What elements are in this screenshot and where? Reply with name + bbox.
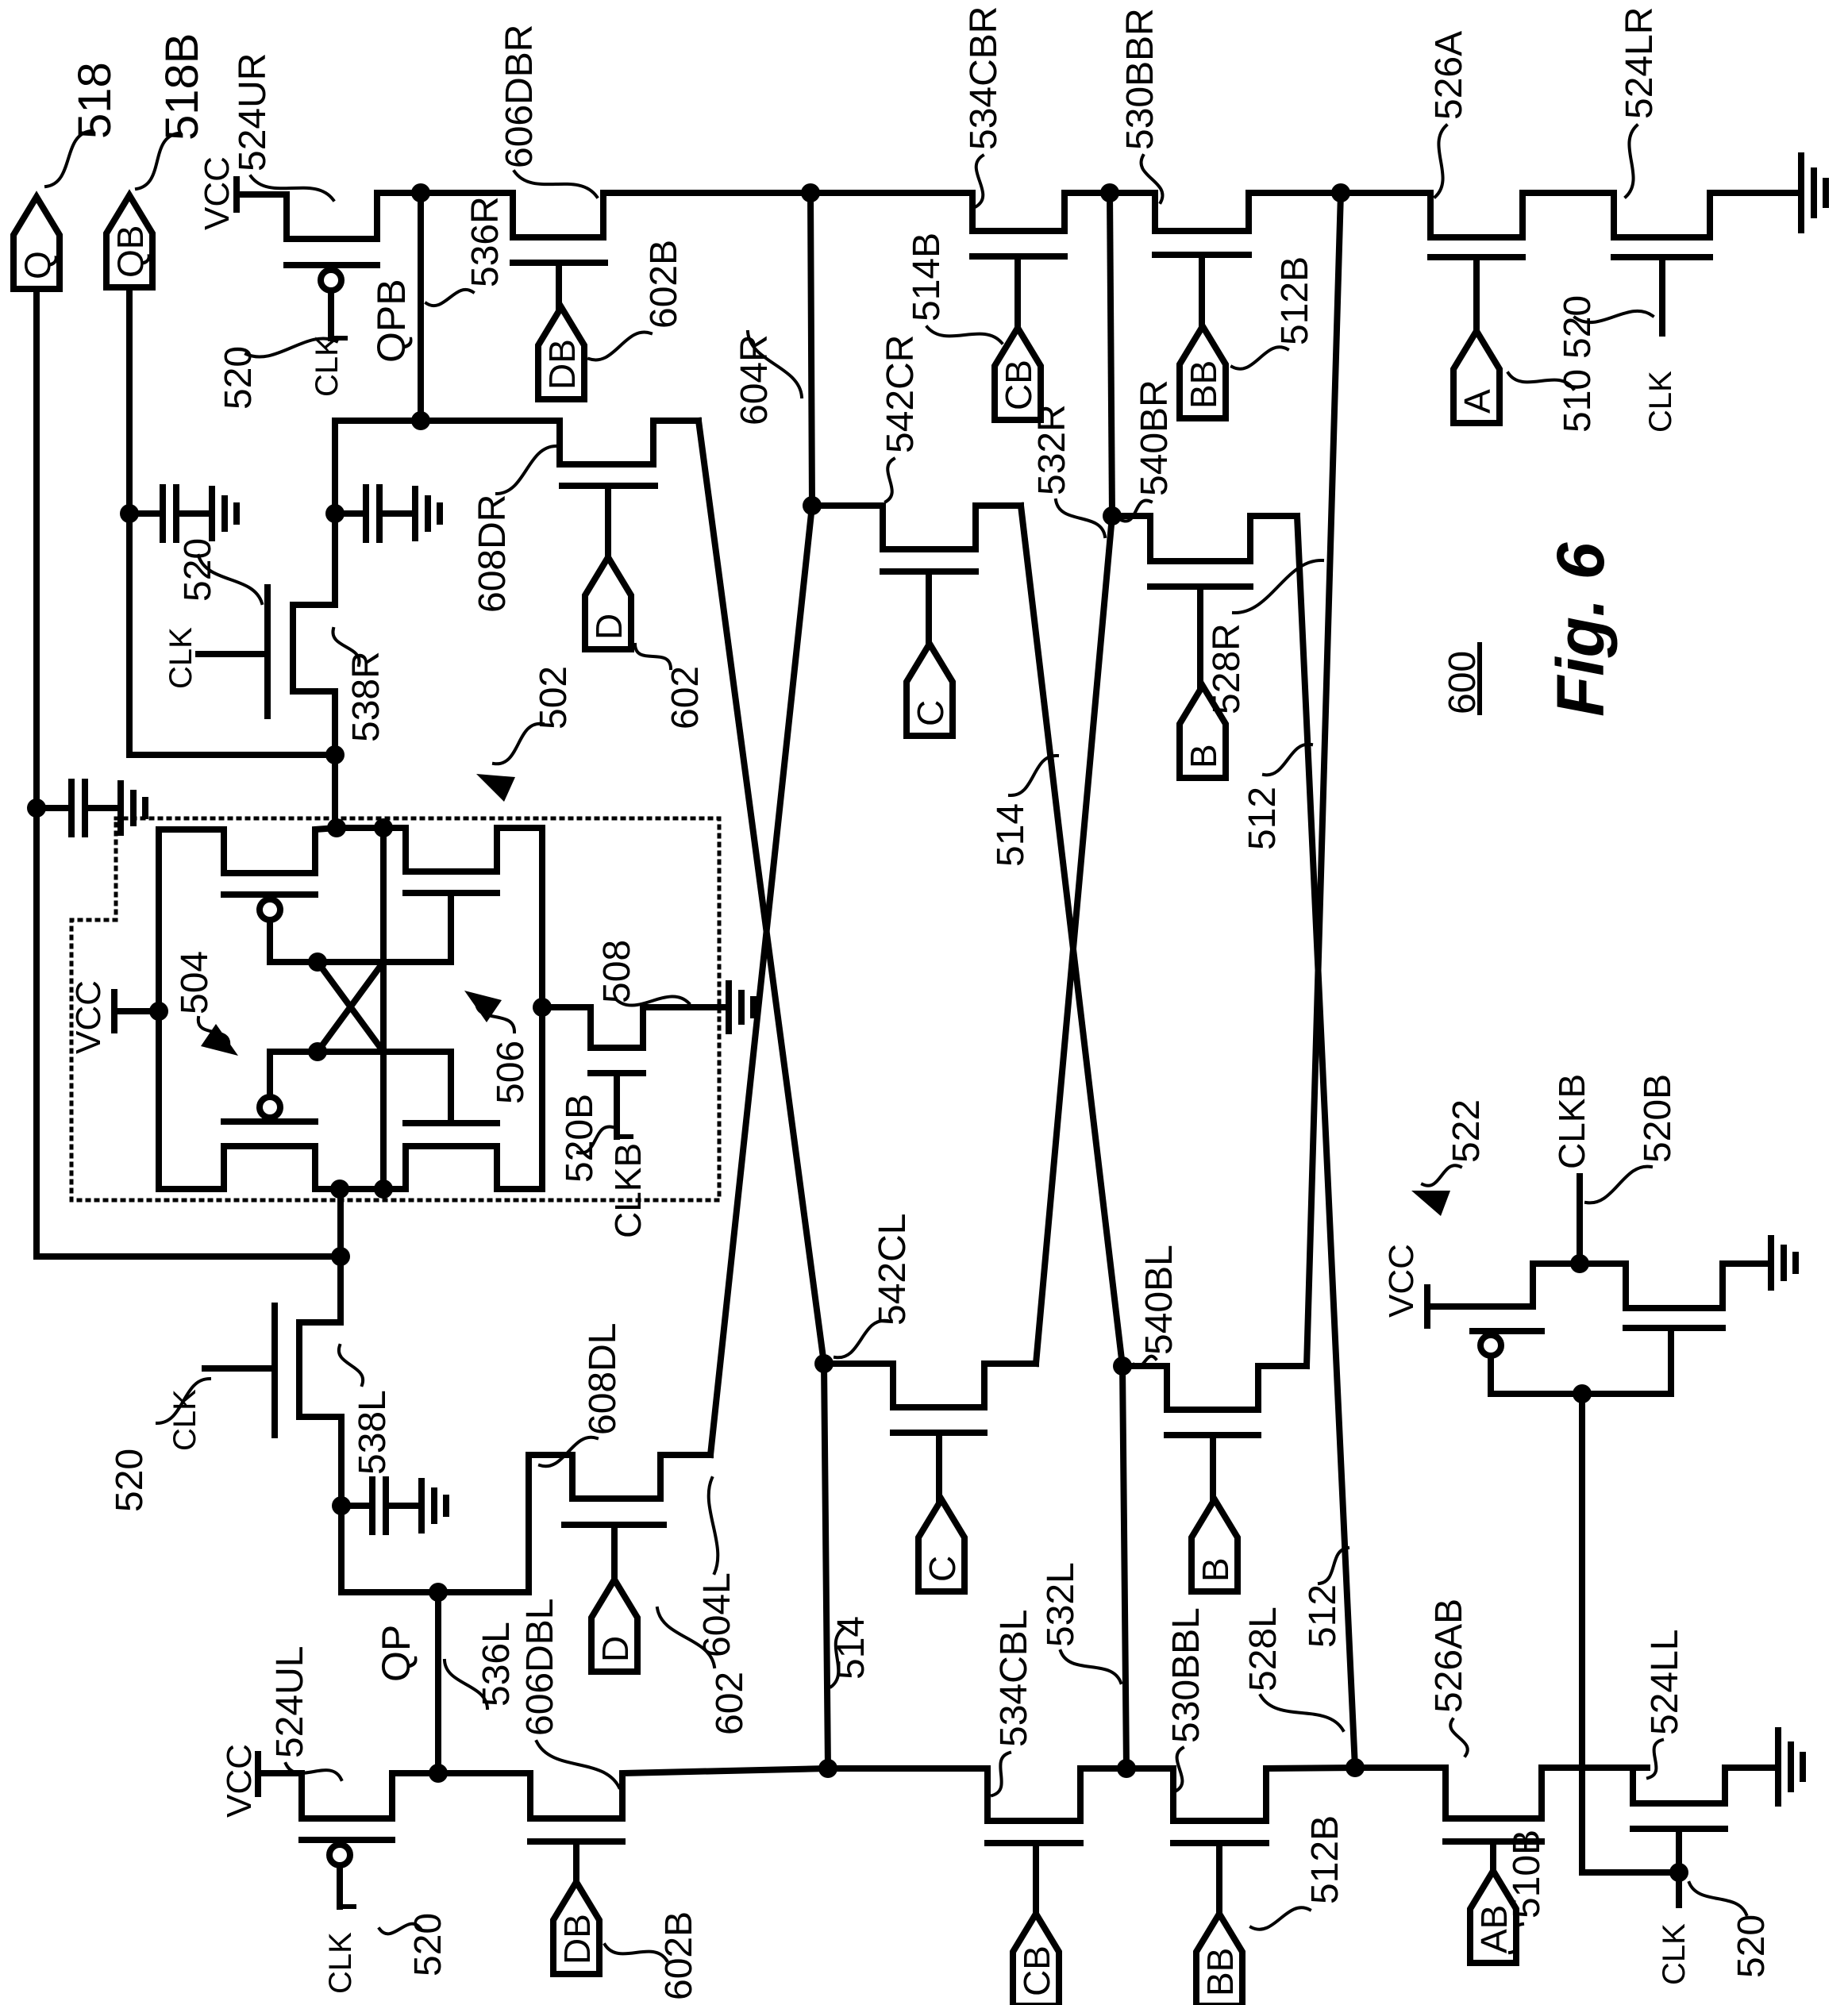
svg-text:530BBR: 530BBR — [1119, 8, 1161, 150]
wire 542CL drain to rail (514) — [824, 1364, 828, 1768]
svg-text:VCC: VCC — [1382, 1244, 1421, 1318]
node (dot) — [803, 496, 822, 515]
transistor 534CBL (NMOS, CB gate) — [828, 1768, 1126, 1821]
input AB (510B) — [1470, 1871, 1516, 1963]
dotted box 502 — [71, 818, 719, 1200]
node (dot) — [429, 1583, 448, 1602]
svg-text:504: 504 — [174, 951, 216, 1014]
svg-text:CLK: CLK — [310, 335, 345, 397]
node (dot) — [374, 1180, 393, 1199]
wire latch right rail — [539, 828, 545, 1189]
wire 538L source — [338, 1417, 345, 1592]
svg-text:602: 602 — [664, 666, 706, 729]
wire X2 drop (to 540BR) — [1110, 193, 1112, 516]
svg-text:602: 602 — [709, 1672, 751, 1735]
power VCC (latch) — [111, 992, 117, 1030]
svg-text:524LR: 524LR — [1619, 7, 1661, 119]
svg-text:520: 520 — [109, 1449, 151, 1512]
svg-text:CLK: CLK — [1657, 1923, 1692, 1985]
svg-text:542CR: 542CR — [880, 335, 922, 453]
svg-text:VCC: VCC — [198, 156, 237, 230]
svg-text:512: 512 — [1302, 1584, 1344, 1648]
wire P 528R/512 (X3 to 540BL src) — [1307, 193, 1341, 1366]
svg-text:528L: 528L — [1242, 1607, 1284, 1691]
node X3 / 528R (dot) — [1331, 183, 1350, 202]
ground (bottom rail end) — [1775, 1730, 1781, 1803]
svg-text:DB: DB — [556, 1914, 598, 1965]
input CB (534CBL) — [1013, 1914, 1059, 2005]
wire QPB rail — [418, 193, 424, 421]
input BB (512B) — [1180, 326, 1226, 418]
input CB (514B) — [995, 328, 1041, 420]
wire bottom rail — [438, 1770, 530, 1776]
svg-text:518: 518 — [69, 62, 121, 139]
svg-text:A: A — [1457, 389, 1498, 414]
wire B (542CR to 608DL) 604L — [710, 506, 812, 1455]
svg-text:C: C — [922, 1556, 963, 1582]
transistor 530BBL (NMOS, BB gate) — [1126, 1768, 1355, 1821]
svg-text:BB: BB — [1183, 360, 1224, 409]
input B (512) — [1180, 686, 1226, 778]
wire Q 512 (540BR src to rail) — [1297, 516, 1355, 1768]
transistor 608DR (NMOS, D gate) — [560, 421, 699, 464]
svg-text:602B: 602B — [643, 240, 685, 329]
transistor 540BL (NMOS, B gate) — [1122, 1366, 1307, 1410]
wire 522 gate node — [1491, 1391, 1671, 1397]
svg-text:DB: DB — [541, 339, 583, 390]
transistor 524LR (NMOS, CLK gate) — [1614, 193, 1801, 237]
wire QB link — [129, 752, 335, 758]
transistor 522 PMOS — [1478, 1264, 1580, 1307]
transistor 538R (NMOS, CLK gate) — [293, 605, 335, 691]
svg-text:608DR: 608DR — [472, 495, 514, 613]
node (dot) — [1103, 506, 1122, 525]
wire cross-couple X — [318, 962, 383, 1052]
transistor 542CR (NMOS, C gate) — [812, 506, 1021, 549]
svg-text:QB: QB — [110, 225, 151, 278]
transistor 524UR (PMOS, CLK gate) — [287, 193, 421, 239]
wire CLK input (522 to 524LL) — [1582, 1394, 1679, 1872]
svg-text:506: 506 — [490, 1041, 532, 1104]
svg-text:QPB: QPB — [369, 279, 414, 363]
wire M1 (542CR src to 540BL) — [1021, 506, 1122, 1366]
svg-text:CLK: CLK — [164, 627, 198, 689]
transistor 526A (NMOS, A gate) — [1341, 193, 1614, 237]
node (dot) — [814, 1354, 834, 1373]
wire QP link — [341, 1589, 529, 1595]
svg-text:CLK: CLK — [1643, 371, 1678, 433]
output Q (518) — [13, 197, 60, 289]
wire 538R source — [332, 691, 338, 828]
transistor 606DBR (NMOS, DB gate) — [513, 193, 810, 237]
transistor 538L (NMOS, CLK gate) — [299, 1322, 341, 1417]
node (dot) — [149, 1002, 168, 1021]
transistor 608DL (NMOS, D gate) — [529, 1455, 710, 1592]
node (dot) — [1113, 1357, 1132, 1376]
node QB tap (dot) — [325, 745, 345, 764]
input DB (602B bottom) — [553, 1882, 599, 1974]
input C (542CL) — [918, 1499, 964, 1591]
ground (top rail end) — [1798, 156, 1804, 230]
svg-text:606DBL: 606DBL — [519, 1599, 561, 1736]
svg-text:520B: 520B — [1637, 1074, 1679, 1163]
power VCC (bottom rail) — [255, 1754, 261, 1794]
input D (602 bottom) — [591, 1580, 637, 1672]
input A (510) — [1453, 331, 1500, 423]
svg-text:538R: 538R — [345, 651, 387, 742]
capacitor (QP node) — [332, 1496, 351, 1515]
svg-text:VCC: VCC — [69, 980, 108, 1054]
svg-text:606DBR: 606DBR — [499, 25, 541, 168]
svg-text:524UR: 524UR — [232, 53, 274, 171]
node QP (dot) — [429, 1764, 448, 1783]
wire QP rail — [435, 1592, 441, 1770]
transistor 504 bottom PMOS (latch) — [159, 1146, 340, 1189]
ground (522) — [1768, 1238, 1774, 1287]
svg-text:C: C — [910, 700, 951, 726]
svg-text:540BR: 540BR — [1134, 379, 1176, 496]
power VCC (522) — [1424, 1287, 1430, 1326]
node (dot) — [327, 818, 346, 837]
wire Q link — [37, 1253, 341, 1260]
ground (508) — [726, 983, 732, 1031]
power VCC (top rail) — [233, 179, 240, 210]
transistor 506 top NMOS (latch) — [337, 828, 542, 872]
svg-text:CLKB: CLKB — [1551, 1074, 1592, 1169]
input BB (530BBL) — [1196, 1914, 1242, 2005]
svg-text:608DL: 608DL — [582, 1323, 624, 1435]
svg-text:530BBL: 530BBL — [1165, 1607, 1207, 1743]
node X2 (dot) — [1100, 183, 1119, 202]
node QPB (dot) — [411, 183, 430, 202]
wire top rail — [421, 190, 513, 196]
svg-text:532L: 532L — [1040, 1562, 1082, 1647]
svg-text:520: 520 — [1557, 295, 1599, 359]
wire latch gate line bottom — [270, 1049, 451, 1055]
svg-text:508: 508 — [596, 940, 638, 1003]
node X1 (dot) — [801, 183, 820, 202]
transistor 534CBR (NMOS, CB gate) — [810, 193, 1110, 231]
node (dot) — [330, 1180, 349, 1199]
wire CLKB out — [1577, 1176, 1583, 1264]
svg-text:CB: CB — [1016, 1945, 1057, 1996]
wire latch left rail — [156, 829, 162, 1189]
svg-text:542CL: 542CL — [872, 1214, 914, 1326]
svg-text:524LL: 524LL — [1644, 1630, 1686, 1735]
svg-text:514B: 514B — [906, 233, 948, 321]
svg-text:D: D — [595, 1636, 636, 1662]
svg-text:534CBL: 534CBL — [993, 1610, 1035, 1747]
transistor 524LL (NMOS, CLK gate) — [1633, 1768, 1778, 1803]
svg-text:510B: 510B — [1506, 1830, 1548, 1918]
node (dot) — [411, 411, 430, 430]
svg-text:D: D — [588, 614, 629, 640]
svg-text:526A: 526A — [1428, 31, 1470, 120]
wire M2 (540BR to 542CL src) — [1036, 516, 1112, 1364]
svg-text:512: 512 — [1242, 787, 1284, 850]
svg-text:536R: 536R — [464, 196, 506, 287]
svg-text:B: B — [1183, 744, 1224, 768]
input DB (602B) — [538, 307, 584, 399]
svg-text:CLK: CLK — [323, 1932, 358, 1994]
svg-text:520: 520 — [1731, 1915, 1773, 1978]
capacitor (Q line) — [27, 799, 46, 818]
svg-text:BB: BB — [1199, 1948, 1241, 1996]
wire latch to 538L — [337, 1189, 344, 1322]
wire QPB link — [335, 418, 560, 424]
transistor 508 (NMOS, CLKB gate) — [542, 1007, 729, 1048]
svg-text:510: 510 — [1557, 369, 1599, 433]
input C (514) — [907, 644, 953, 736]
transistor 524UL (PMOS, CLK gate) — [302, 1773, 438, 1818]
svg-text:512B: 512B — [1304, 1815, 1346, 1904]
wire latch cross centre — [380, 828, 387, 1189]
transistor 506 bottom NMOS (latch) — [340, 1146, 542, 1189]
svg-text:B: B — [1195, 1557, 1236, 1582]
input D (602) — [585, 557, 631, 649]
transistor 504 top PMOS (latch) — [159, 828, 337, 873]
input B (540BL) — [1192, 1499, 1238, 1591]
node (dot) — [1669, 1863, 1688, 1882]
node CLKB (dot) — [1570, 1254, 1589, 1273]
svg-text:540BL: 540BL — [1138, 1245, 1180, 1355]
svg-text:QP: QP — [374, 1625, 418, 1682]
svg-text:CB: CB — [998, 360, 1039, 410]
svg-text:524UL: 524UL — [269, 1646, 311, 1758]
svg-text:518B: 518B — [156, 33, 208, 140]
svg-text:538L: 538L — [352, 1390, 394, 1475]
svg-text:526AB: 526AB — [1428, 1599, 1470, 1713]
wire latch gate line top — [270, 959, 451, 965]
node (dot) — [533, 998, 552, 1017]
svg-text:522: 522 — [1446, 1099, 1488, 1163]
svg-text:514: 514 — [990, 803, 1032, 867]
svg-text:534CBR: 534CBR — [963, 6, 1005, 150]
transistor 530BBR (NMOS, BB gate) — [1110, 193, 1341, 231]
wire 604R (X1 to 542CR) — [810, 193, 812, 506]
transistor 526AB (NMOS, AB gate) — [1355, 1768, 1647, 1818]
svg-text:512B: 512B — [1274, 256, 1316, 345]
transistor 540BR (NMOS, B gate) — [1112, 516, 1297, 561]
svg-text:Fig. 6: Fig. 6 — [1543, 541, 1618, 717]
transistor 606DBL (NMOS, DB gate) — [530, 1768, 828, 1818]
transistor 542CL (NMOS, C gate) — [824, 1364, 1036, 1407]
svg-text:520: 520 — [177, 538, 219, 602]
svg-text:Q: Q — [17, 251, 58, 279]
transistor 522 NMOS — [1580, 1264, 1771, 1308]
output QB (518B) — [106, 195, 152, 287]
svg-text:CLKB: CLKB — [607, 1143, 649, 1238]
wire 540BL drain to rail — [1122, 1366, 1126, 1768]
svg-text:VCC: VCC — [220, 1744, 259, 1818]
svg-text:502: 502 — [533, 666, 575, 729]
wire 538R drain — [332, 421, 338, 605]
wire A (608DR to 542CL) — [699, 421, 824, 1364]
svg-text:532R: 532R — [1031, 404, 1073, 495]
node Q tap (dot) — [331, 1247, 350, 1266]
node Y1 (dot) — [818, 1759, 837, 1778]
node Y3 (dot) — [1346, 1758, 1365, 1777]
node Y2 (dot) — [1117, 1759, 1136, 1778]
svg-text:604L: 604L — [696, 1572, 738, 1657]
capacitor (QB line) — [120, 504, 139, 523]
capacitor (QPB node) — [325, 504, 345, 523]
node (dot) — [374, 818, 393, 837]
